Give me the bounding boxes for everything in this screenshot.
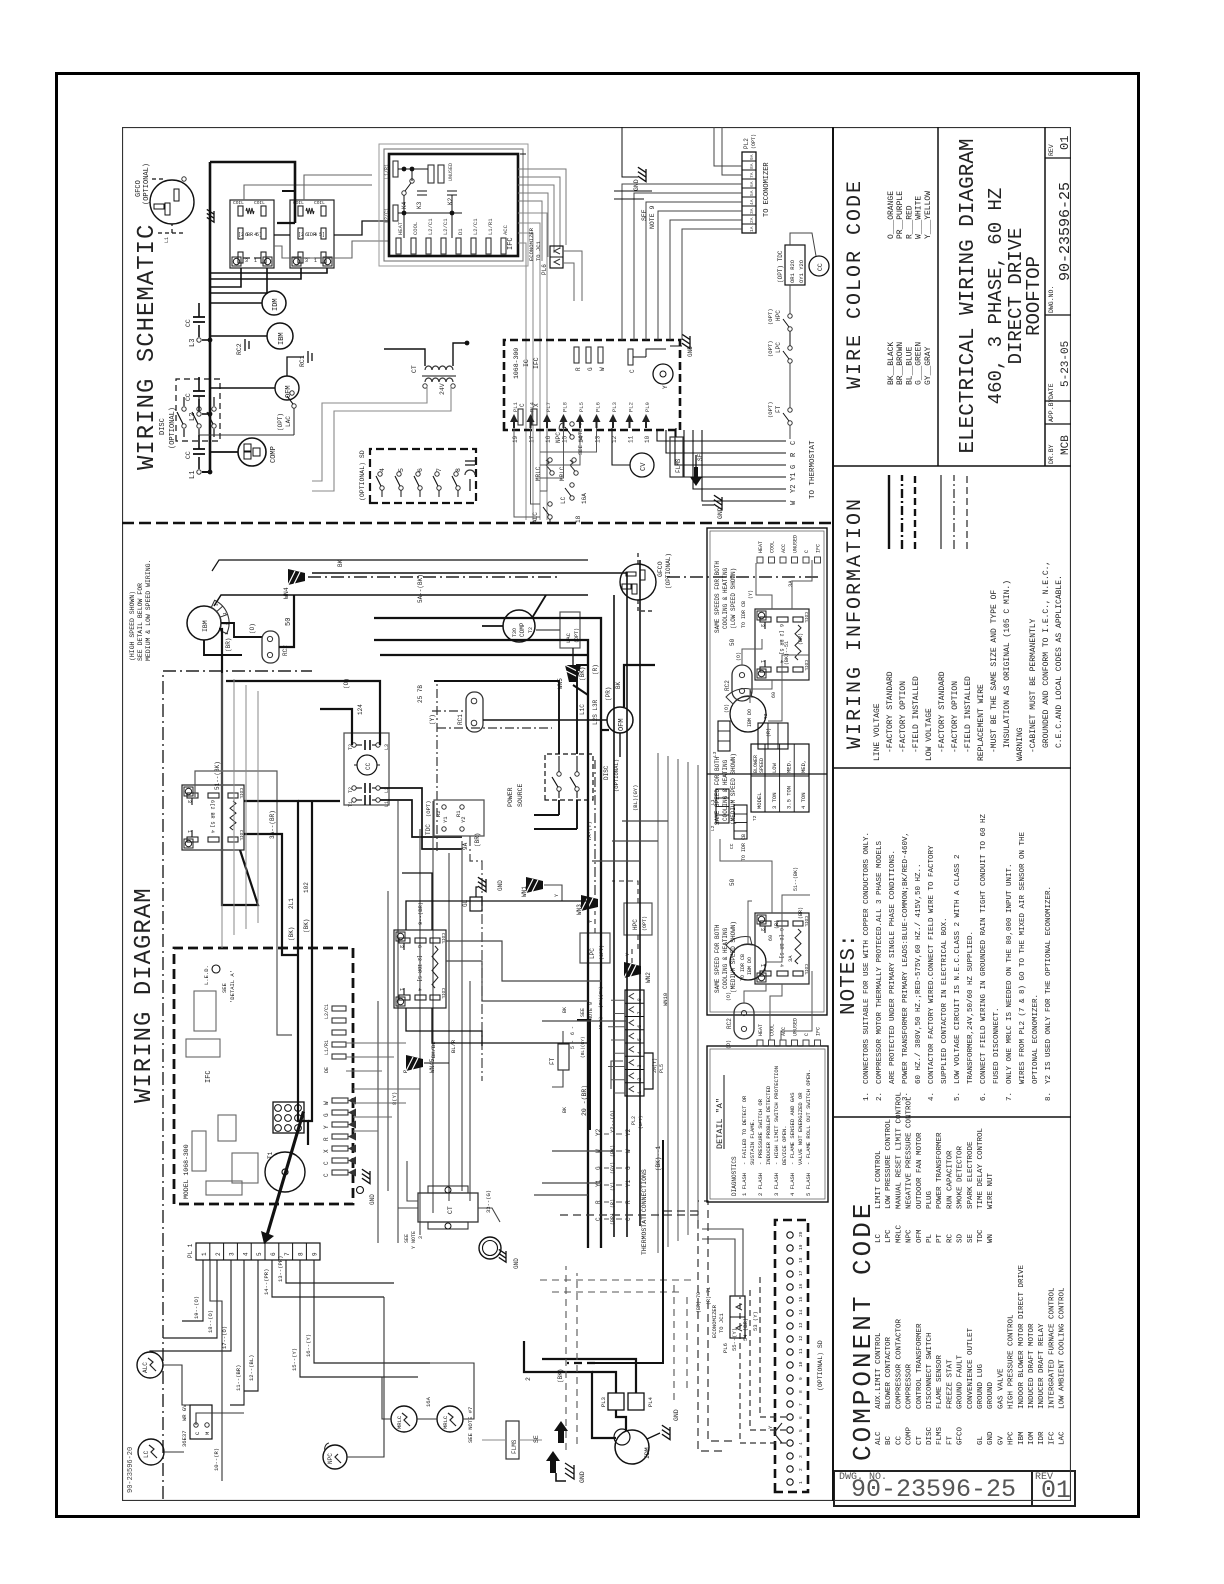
svg-text:9: 9 — [798, 1377, 804, 1380]
board top bars L1R1 L2C1 DE — [332, 1006, 346, 1011]
svg-text:W: W — [323, 1101, 330, 1105]
svg-text:124: 124 — [357, 704, 364, 715]
svg-text:CT: CT — [447, 1206, 454, 1214]
svg-text:WN1: WN1 — [521, 886, 528, 897]
svg-text:PL3: PL3 — [611, 402, 618, 412]
wires relays to bus — [210, 268, 241, 287]
svg-text:GFCO: GFCO — [957, 1426, 965, 1445]
svg-text:NOTE 9: NOTE 9 — [649, 205, 656, 229]
svg-text:DISC: DISC — [159, 418, 167, 435]
svg-text:16A: 16A — [581, 493, 588, 504]
svg-text:1: 1 — [201, 1252, 208, 1256]
svg-text:PL9: PL9 — [644, 402, 651, 412]
svg-text:(OPT) TDC: (OPT) TDC — [777, 250, 784, 283]
svg-text:-FACTORY OPTION: -FACTORY OPTION — [899, 681, 908, 753]
svg-text:GY__GRAY: GY__GRAY — [924, 346, 933, 385]
svg-text:5A: 5A — [749, 190, 755, 196]
svg-text:3: 3 — [398, 945, 404, 948]
svg-text:1: 1 — [637, 1091, 643, 1094]
svg-text:GFCO: GFCO — [657, 561, 664, 577]
svg-text:1: 1 — [398, 988, 404, 991]
wire color code box — [937, 127, 939, 466]
time delay TDC OPT box main — [434, 800, 484, 836]
svg-text:GND: GND — [673, 1409, 680, 1421]
svg-text:L3: L3 — [384, 744, 390, 750]
svg-text:50: 50 — [285, 618, 293, 626]
svg-text:TO ECONOMIZER: TO ECONOMIZER — [763, 162, 771, 217]
svg-text:Y2--(O): Y2--(O) — [609, 1110, 616, 1133]
board LED — [212, 965, 220, 973]
svg-text:SEE NOTE #7: SEE NOTE #7 — [467, 1407, 474, 1443]
svg-text:15: 15 — [798, 1296, 804, 1302]
svg-text:GL: GL — [977, 1435, 985, 1445]
svg-text:(OPT): (OPT) — [642, 916, 648, 931]
svg-text:(BK): (BK) — [303, 919, 310, 933]
svg-text:ONLY ONE MRLC IS NEEDED ON THE: ONLY ONE MRLC IS NEEDED ON THE 80,000 IN… — [1006, 863, 1014, 1084]
svg-text:C: C — [629, 369, 636, 373]
svg-text:55--(Y): 55--(Y) — [731, 1328, 738, 1351]
wire IBM (BR) — [204, 640, 242, 655]
svg-text:SE: SE — [967, 1233, 975, 1243]
svg-text:9A: 9A — [749, 154, 755, 160]
svg-text:DWG.NO.: DWG.NO. — [1048, 286, 1055, 313]
economizer dashed long horizontals — [565, 1266, 567, 1450]
svg-text:(R) 71: (R) 71 — [706, 1287, 712, 1305]
CC contact T3 L3 — [352, 743, 356, 747]
wire 20 -(BR) bold — [577, 1020, 590, 1130]
svg-text:PL2: PL2 — [631, 1116, 637, 1125]
wires IFC box to economizer area — [520, 153, 526, 155]
svg-text:ALC: ALC — [142, 1362, 149, 1373]
ground lug GL — [470, 897, 482, 911]
svg-text:2: 2 — [798, 1468, 804, 1471]
svg-text:RC2: RC2 — [724, 680, 731, 691]
svg-text:WR GV: WR GV — [181, 1404, 188, 1421]
svg-text:8: 8 — [298, 1252, 305, 1256]
svg-text:MODEL: MODEL — [756, 792, 763, 809]
svg-text:CC: CC — [185, 393, 192, 401]
svg-text:BL/R: BL/R — [450, 1039, 457, 1053]
svg-text:(BK): (BK) — [579, 667, 586, 681]
board component blocks — [206, 1181, 242, 1195]
svg-text:WIRING INFORMATION: WIRING INFORMATION — [844, 497, 867, 749]
svg-text:- PRESSURE SWITCH OR: - PRESSURE SWITCH OR — [757, 1098, 764, 1165]
svg-text:MRLC: MRLC — [895, 1224, 903, 1243]
svg-text:(BK): (BK) — [288, 927, 295, 941]
svg-text:HEAT: HEAT — [758, 541, 764, 553]
svg-text:4: 4 — [242, 1252, 249, 1256]
svg-text:50: 50 — [729, 638, 736, 646]
svg-text:INSULATION AS ORIGINAL (105 C: INSULATION AS ORIGINAL (105 C MIN.) — [1003, 580, 1012, 748]
svg-text:HIGH PRESSURE CONTROL: HIGH PRESSURE CONTROL — [1008, 1314, 1016, 1409]
svg-text:2: 2 — [525, 1377, 532, 1381]
legend1 terminal column — [757, 557, 763, 563]
ground IDM — [662, 1425, 670, 1439]
IC terminals R G W — [574, 347, 579, 363]
svg-text:5: 5 — [256, 1252, 263, 1256]
wires PL5 to bundle — [614, 1092, 625, 1094]
svg-text:NPC: NPC — [327, 1453, 334, 1464]
svg-text:G: G — [587, 367, 594, 371]
economizer dashed path rectangles — [698, 1211, 722, 1451]
svg-text:SUPPLIED CONTACTOR IN ELECTRIC: SUPPLIED CONTACTOR IN ELECTRICAL BOX. — [941, 917, 949, 1084]
PL1 connector strip — [196, 1243, 320, 1260]
svg-text:19--(O): 19--(O) — [193, 1296, 200, 1319]
svg-text:G: G — [323, 1113, 330, 1117]
svg-text:-MUST BE THE SAME SIZE AND TYP: -MUST BE THE SAME SIZE AND TYPE OF — [990, 590, 999, 753]
svg-text:PR__PURPLE: PR__PURPLE — [896, 191, 905, 239]
svg-text:BLOWER CONTACTOR: BLOWER CONTACTOR — [885, 1336, 893, 1409]
svg-text:16--(Y): 16--(Y) — [305, 1334, 312, 1357]
svg-text:TO THERMOSTAT: TO THERMOSTAT — [809, 440, 817, 499]
svg-text:IDM: IDM — [272, 298, 280, 311]
svg-text:6.: 6. — [980, 1092, 988, 1101]
PL5 PL2 connector strip — [625, 990, 644, 1096]
svg-text:3 TON: 3 TON — [771, 792, 778, 809]
svg-text:SE: SE — [533, 1435, 540, 1443]
legend2 terminal column — [757, 1040, 763, 1046]
svg-text:FT: FT — [946, 1435, 954, 1445]
bus corner to relay feeds — [210, 162, 295, 223]
svg-text:6: 6 — [637, 1025, 643, 1028]
induced draft motor IDM main — [615, 1430, 649, 1464]
IDM bold wires — [536, 1372, 616, 1438]
svg-text:(BK)--51: (BK)--51 — [784, 641, 790, 665]
svg-text:L2: L2 — [189, 413, 197, 421]
wires CT secondary — [384, 349, 425, 366]
svg-text:1 FLASH: 1 FLASH — [741, 1173, 748, 1196]
svg-text:Y2: Y2 — [790, 485, 798, 493]
svg-text:- FAILED TO DETECT OR: - FAILED TO DETECT OR — [741, 1095, 748, 1165]
svg-text:PL6: PL6 — [541, 264, 548, 275]
svg-text:1: 1 — [798, 1481, 804, 1484]
svg-text:(O): (O) — [724, 704, 730, 713]
svg-text:(BR): (BR) — [798, 907, 804, 919]
svg-text:20 -(BR): 20 -(BR) — [581, 1085, 588, 1116]
svg-text:NOTES:: NOTES: — [838, 933, 861, 1015]
indoor blower motor IBM main — [187, 606, 221, 640]
svg-text:R: R — [323, 1137, 330, 1141]
svg-text:SE: SE — [697, 453, 704, 461]
svg-text:7: 7 — [284, 1252, 291, 1256]
svg-text:BL__BLUE: BL__BLUE — [905, 346, 914, 385]
svg-text:Y2: Y2 — [625, 1128, 632, 1136]
wire nut WN45 — [406, 1055, 423, 1071]
svg-text:L1: L1 — [189, 471, 197, 479]
svg-text:IFC: IFC — [816, 544, 822, 553]
svg-text:DATE: DATE — [1048, 383, 1055, 399]
svg-text:G: G — [595, 1166, 602, 1170]
svg-text:HEAT: HEAT — [397, 221, 404, 235]
svg-text:LPC: LPC — [589, 948, 596, 959]
svg-text:1: 1 — [314, 258, 317, 264]
svg-text:18--(O): 18--(O) — [207, 1310, 214, 1333]
svg-text:IFC: IFC — [1048, 1431, 1056, 1445]
svg-text:DEVICE OPEN.: DEVICE OPEN. — [781, 1125, 788, 1165]
inner drawing frame — [123, 128, 1071, 1501]
svg-text:PL2: PL2 — [743, 138, 750, 149]
board right edge terminals W G Y R X C C — [332, 1098, 348, 1103]
svg-text:PL1: PL1 — [512, 401, 519, 412]
svg-text:OFM: OFM — [618, 718, 626, 731]
svg-text:6: 6 — [778, 928, 784, 931]
svg-text:Y: Y — [625, 953, 631, 956]
svg-text:R1: R1 — [455, 810, 462, 817]
svg-text:4: 4 — [798, 1442, 804, 1445]
COMP bold feeds — [482, 625, 503, 627]
svg-text:CONVENIENCE OUTLET: CONVENIENCE OUTLET — [967, 1327, 975, 1409]
svg-text:5: 5 — [798, 1429, 804, 1432]
svg-text:PT: PT — [936, 1233, 944, 1243]
panel divider: diagram area vs info row — [832, 127, 834, 1501]
wire nut WN1 — [526, 877, 543, 893]
svg-text:-FACTORY OPTION: -FACTORY OPTION — [951, 681, 960, 753]
svg-text:60 HZ./ 380V,50 HZ.;RED-575V,6: 60 HZ./ 380V,50 HZ.;RED-575V,60 HZ./ 415… — [915, 863, 923, 1084]
svg-text:GROUND FAULT: GROUND FAULT — [957, 1354, 965, 1409]
svg-text:THERMOSTAT CONNECTIONS: THERMOSTAT CONNECTIONS — [641, 1169, 648, 1255]
svg-text:(PR): (PR) — [605, 687, 612, 701]
svg-text:L.E.D.: L.E.D. — [203, 965, 210, 985]
svg-text:BK: BK — [337, 559, 344, 567]
svg-text:TRANSFORMER,24V,50/60 HZ SUPPL: TRANSFORMER,24V,50/60 HZ SUPPLIED. — [967, 931, 975, 1084]
svg-text:1: 1 — [224, 632, 230, 635]
svg-text:-CABINET MUST BE PERMANENTLY: -CABINET MUST BE PERMANENTLY — [1029, 618, 1038, 753]
svg-text:3 FLASH: 3 FLASH — [773, 1173, 780, 1196]
control board outer dashed box — [174, 948, 353, 1204]
aux limit control ALC — [137, 1352, 163, 1378]
svg-text:7A: 7A — [749, 172, 755, 178]
svg-text:L2/C1: L2/C1 — [384, 208, 390, 223]
svg-text:L2: L2 — [710, 825, 716, 831]
svg-text:TDC: TDC — [425, 824, 432, 835]
svg-text:WN3: WN3 — [576, 904, 583, 915]
svg-text:51--(BK): 51--(BK) — [793, 867, 799, 891]
svg-text:12--(BL): 12--(BL) — [248, 1355, 255, 1381]
svg-text:5 -: 5 - — [570, 1040, 576, 1049]
svg-text:(R): (R) — [766, 728, 772, 737]
svg-text:C: C — [194, 1431, 201, 1435]
svg-text:GND: GND — [717, 507, 724, 519]
svg-text:BR__BROWN: BR__BROWN — [896, 342, 905, 385]
svg-text:(BR): (BR) — [474, 833, 481, 847]
time delay control TDC (OPT) — [785, 245, 805, 285]
svg-text:(Y): (Y) — [748, 590, 754, 599]
svg-text:R: R — [790, 452, 798, 457]
terminal L2 with CC contact — [197, 412, 201, 416]
SD dashed wires — [740, 1297, 786, 1443]
schematic ground GND upper — [638, 167, 646, 181]
svg-text:10: 10 — [644, 435, 651, 443]
economizer dash-dot boundary — [162, 671, 164, 1499]
svg-text:3A: 3A — [749, 208, 755, 214]
svg-text:-FIELD INSTALLED: -FIELD INSTALLED — [912, 676, 921, 753]
svg-text:1: 1 — [186, 830, 192, 833]
svg-text:L2S L3R: L2S L3R — [592, 699, 599, 725]
svg-text:IDM: IDM — [644, 1447, 651, 1459]
svg-text:LPC: LPC — [885, 1229, 893, 1243]
svg-text:(MEDIUM SPEED SHOWN): (MEDIUM SPEED SHOWN) — [730, 921, 737, 993]
svg-text:5-23-05: 5-23-05 — [1060, 341, 1071, 387]
svg-text:UNUSED: UNUSED — [448, 163, 454, 181]
svg-text:25 7B: 25 7B — [417, 685, 424, 703]
svg-text:1A: 1A — [749, 226, 755, 232]
svg-text:LAC: LAC — [565, 632, 572, 643]
svg-text:4 FLASH: 4 FLASH — [789, 1173, 796, 1196]
svg-text:K2: K2 — [447, 197, 454, 205]
svg-text:ALC: ALC — [875, 1431, 883, 1445]
power wires to DISC — [558, 701, 560, 754]
svg-text:L2/C1: L2/C1 — [472, 218, 479, 235]
svg-text:6: 6 — [270, 1252, 277, 1256]
svg-text:CV: CV — [640, 462, 648, 471]
svg-text:Y: Y — [767, 1425, 774, 1429]
svg-text:AUX.LIMIT CONTROL: AUX.LIMIT CONTROL — [875, 1332, 883, 1409]
svg-text:WIRING DIAGRAM: WIRING DIAGRAM — [131, 887, 158, 1103]
svg-text:11--(BR): 11--(BR) — [235, 1365, 242, 1391]
svg-text:COIL: COIL — [440, 988, 446, 999]
IFC terminal bars — [396, 238, 401, 254]
svg-text:SD: SD — [957, 1233, 965, 1243]
svg-text:R: R — [625, 1200, 632, 1204]
svg-text:IFC: IFC — [507, 237, 515, 250]
svg-text:L1/R1: L1/R1 — [324, 1040, 330, 1055]
svg-text:SOURCE: SOURCE — [517, 783, 524, 807]
wire 10 (R) long — [210, 1260, 222, 1481]
svg-text:3: 3 — [759, 624, 765, 627]
svg-text:01: 01 — [1058, 136, 1071, 150]
svg-text:(OPT): (OPT) — [425, 800, 432, 817]
svg-text:G: G — [625, 1166, 632, 1170]
CC contact T2 L2 — [352, 786, 356, 790]
svg-text:MRLC: MRLC — [535, 466, 542, 481]
svg-text:MRLC: MRLC — [559, 466, 566, 481]
svg-text:RC2: RC2 — [726, 1018, 733, 1029]
control transformer CT — [425, 366, 453, 382]
svg-text:(O): (O) — [249, 623, 256, 634]
svg-text:BK: BK — [562, 1007, 568, 1013]
svg-text:DR.BY: DR.BY — [1048, 444, 1055, 464]
svg-text:(HIGH SPEED SHOWN): (HIGH SPEED SHOWN) — [129, 591, 136, 661]
svg-text:G___GREEN: G___GREEN — [915, 342, 924, 385]
board arrow to PL1 — [261, 1111, 305, 1244]
svg-text:-FACTORY STANDARD: -FACTORY STANDARD — [938, 671, 947, 753]
svg-text:COMP: COMP — [906, 1426, 914, 1445]
svg-text:GND: GND — [513, 1258, 520, 1269]
svg-text:11: 11 — [798, 1348, 804, 1354]
svg-text:Y2: Y2 — [595, 1128, 602, 1136]
svg-text:(LOW SPEED SHOWN): (LOW SPEED SHOWN) — [730, 568, 737, 629]
svg-text:18: 18 — [575, 515, 582, 523]
svg-text:IFC: IFC — [816, 1027, 822, 1036]
svg-text:11: 11 — [628, 435, 635, 443]
IDM plugs PL3 PL4 — [608, 1393, 624, 1410]
svg-text:Y: Y — [554, 894, 560, 897]
svg-text:IFC: IFC — [205, 1070, 213, 1083]
svg-text:R2: R2 — [435, 810, 442, 817]
svg-text:(BL)(GY): (BL)(GY) — [580, 1036, 586, 1058]
svg-text:L2/C1: L2/C1 — [442, 218, 449, 235]
svg-text:FLAME SENSOR: FLAME SENSOR — [936, 1354, 944, 1409]
svg-text:PL4: PL4 — [647, 1396, 654, 1407]
svg-text:3.: 3. — [902, 1092, 910, 1101]
svg-text:K3: K3 — [416, 201, 423, 209]
legend1 relay BR — [755, 609, 809, 680]
svg-text:COMP: COMP — [519, 622, 526, 637]
svg-text:TO IDR CB: TO IDR CB — [740, 954, 746, 981]
svg-text:14--(PR): 14--(PR) — [263, 1269, 270, 1295]
terminal L3 with CC contact — [197, 338, 201, 342]
svg-text:60: 60 — [771, 692, 777, 698]
svg-text:REPLACEMENT WIRE: REPLACEMENT WIRE — [977, 684, 986, 761]
svg-text:51--(BK): 51--(BK) — [214, 761, 221, 790]
svg-text:ELECTRICAL WIRING DIAGRAM: ELECTRICAL WIRING DIAGRAM — [957, 138, 980, 453]
svg-text:LINE VOLTAGE: LINE VOLTAGE — [873, 703, 882, 761]
svg-text:SUSTAIN FLAME.: SUSTAIN FLAME. — [749, 1119, 756, 1165]
svg-text:HPC: HPC — [632, 919, 639, 930]
current transformer CT main — [418, 1193, 478, 1222]
svg-text:1068-300: 1068-300 — [513, 348, 520, 379]
CC contact T1 L1 — [352, 798, 356, 802]
svg-text:T1: T1 — [267, 1151, 274, 1159]
wire 3A--(BR) — [195, 771, 292, 1035]
svg-text:4.: 4. — [928, 1092, 936, 1101]
flame sensor FLMS schematic — [670, 437, 683, 477]
svg-text:COOLING & HEATING: COOLING & HEATING — [722, 567, 729, 629]
legend1 RC2 — [732, 665, 752, 701]
svg-text:HEAT: HEAT — [758, 1024, 764, 1036]
svg-text:(OPTIONAL): (OPTIONAL) — [665, 553, 672, 589]
svg-text:MODEL 1068-300: MODEL 1068-300 — [183, 1144, 190, 1199]
svg-text:R___RED: R___RED — [905, 205, 914, 239]
svg-text:Y: Y — [323, 1125, 330, 1129]
svg-text:COOL: COOL — [770, 541, 776, 553]
svg-text:POWER: POWER — [507, 787, 514, 807]
svg-text:15--(Y): 15--(Y) — [291, 1348, 298, 1371]
svg-text:BC: BC — [885, 1435, 893, 1445]
title block bottom row cells — [1045, 423, 1071, 425]
svg-text:17: 17 — [798, 1270, 804, 1276]
svg-text:(OPT): (OPT) — [638, 1115, 644, 1129]
wires IFC box to PL2 connector — [518, 201, 542, 261]
svg-text:T2: T2 — [348, 787, 354, 793]
svg-text:(OPTIONAL): (OPTIONAL) — [143, 163, 151, 205]
svg-text:WIRE NUT: WIRE NUT — [987, 1172, 995, 1209]
IFC internal wires — [398, 212, 462, 214]
svg-text:IBM: IBM — [1018, 1431, 1026, 1445]
svg-text:Y: Y — [662, 385, 669, 389]
svg-text:POWER TRANSFORMER PRIMARY LEAD: POWER TRANSFORMER PRIMARY LEADS:BLUE-COM… — [902, 832, 910, 1084]
optional SD dashed box bottom — [775, 1220, 808, 1492]
wire nut WN2 — [624, 962, 641, 978]
legend2 relay BR — [755, 913, 809, 984]
svg-text:3A: 3A — [787, 955, 794, 962]
svg-text:(OPT): (OPT) — [751, 134, 757, 149]
svg-text:OR1 R2O: OR1 R2O — [789, 259, 796, 283]
outdoor fan motor OFM main — [607, 707, 633, 733]
wires relays to IFC — [274, 234, 290, 236]
svg-text:SEE: SEE — [641, 209, 648, 221]
svg-text:IC: IC — [523, 359, 530, 367]
svg-text:18: 18 — [798, 1257, 804, 1263]
relay IDR schematic — [290, 200, 334, 268]
svg-text:PL6: PL6 — [595, 402, 602, 412]
svg-text:WARNING: WARNING — [1016, 727, 1025, 761]
svg-text:BK__BLACK: BK__BLACK — [887, 342, 896, 385]
OFM BK feed — [624, 665, 655, 707]
svg-text:-FACTORY STANDARD: -FACTORY STANDARD — [886, 671, 895, 753]
wires CT primary — [312, 386, 427, 481]
svg-text:T2: T2 — [752, 815, 758, 821]
